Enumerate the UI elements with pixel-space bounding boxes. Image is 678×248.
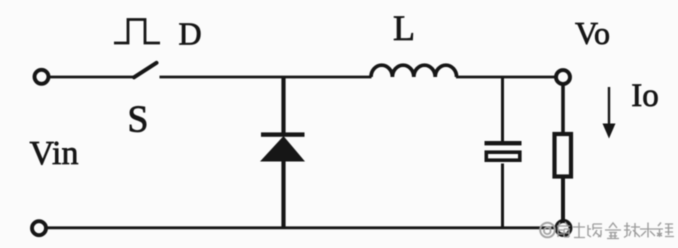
terminal Vo+ (top-right output terminal) [556, 70, 570, 84]
current arrow Io [603, 87, 616, 139]
wire load resistor to Vo- terminal [561, 177, 565, 222]
wire top rail from inductor to Vo terminal (through capacitor node) [456, 76, 556, 79]
resistor load R [555, 134, 572, 177]
pulse waveform symbol (gate drive) [114, 20, 160, 44]
svg-text:S: S [127, 99, 148, 141]
watermark juejin community [540, 223, 555, 238]
svg-text:Vin: Vin [30, 135, 79, 172]
switch S (open blade) [134, 63, 157, 78]
wire top rail from switch to inductor (through diode node) [160, 76, 372, 79]
terminal Vo- (bottom-right output terminal) [557, 221, 571, 235]
wire capacitor branch lower [501, 164, 504, 228]
svg-text:L: L [393, 8, 415, 48]
svg-text:Vo: Vo [575, 15, 610, 51]
wire top rail from Vin+ to switch [49, 76, 135, 79]
wire diode branch upper [281, 77, 285, 134]
terminal Vin+ (top-left input terminal) [35, 70, 49, 84]
capacitor C (polarized) [485, 141, 522, 160]
diode (freewheeling, cathode up) [260, 132, 305, 161]
wire Vo terminal to load resistor [561, 85, 565, 135]
wire bottom rail [47, 226, 557, 229]
wire diode branch lower [281, 160, 285, 228]
svg-text:Io: Io [631, 78, 659, 114]
terminal Vin- (bottom-left input terminal) [32, 221, 46, 235]
wire capacitor branch upper [501, 77, 504, 142]
svg-text:D: D [178, 16, 201, 52]
inductor L [371, 65, 457, 77]
